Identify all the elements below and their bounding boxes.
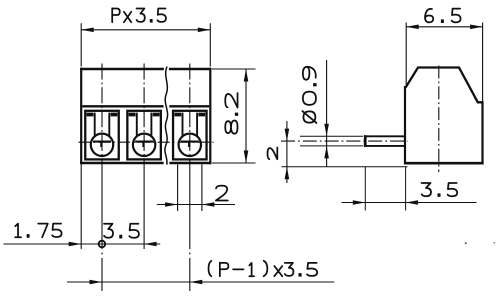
cell 3 screw slot [181,142,199,147]
pin top edge [364,135,406,137]
break squiggle [165,67,168,165]
horizontal row centerline [79,141,214,143]
cell 3 screw circle [179,134,201,156]
dimension 2 (front) line [157,204,235,206]
centerline pole 3 (in block) [189,64,191,165]
dimension 2 (side) line [286,121,288,183]
cell 1 clamp walls [95,113,110,137]
arrow dia0.9 top [324,124,329,137]
pin centerline [281,140,408,142]
front view: block top edge [80,68,211,70]
arrow Px3.5 right [198,28,211,33]
cell 1 square [85,111,119,160]
dimension 3.5 (side) extension lines [365,167,405,211]
dimension (P-1)x3.5 line [67,281,334,283]
dimension dia 0.9 line [326,60,328,167]
cell 1 top bars [87,113,118,117]
arrow 2 front right [202,202,215,207]
cell 2 screw circle [133,134,155,156]
cell 2 clamp walls [137,113,152,137]
side view: bottom edge [404,162,484,165]
pin bottom edge [364,145,406,147]
centerline pole 3 (below block) [189,164,191,291]
front view: block bottom edge [80,162,211,165]
scan speck 2 [493,242,495,244]
side view: left edge [404,86,406,164]
cell 2 screw slot [135,142,153,147]
side view vertical centerline [438,66,440,173]
dimension 2 (front) extension lines [178,164,202,211]
dimension Px3.5 line [81,29,210,31]
front view: block right edge [209,68,211,165]
label 8.2 [225,93,238,134]
left edge extension down [80,164,82,249]
dimension 6.5 line [406,26,482,28]
label dia 0.9 [302,67,316,123]
cell 2 square [127,111,161,160]
label 3.5 side [422,183,458,197]
label Px3.5 [112,8,166,22]
dimension 1.75 / 3.5 line [4,243,161,245]
front view: divider line [82,105,209,107]
arrow 2 front left [165,202,178,207]
label 6.5 [425,9,461,23]
scan speck 1 [465,242,467,244]
cell 3 square [173,111,207,160]
dimension 8.2 extension lines [212,69,256,163]
dimension 8.2 line [245,69,247,163]
dimension 3.5 (side) line [342,202,477,204]
cell 2 top bars [129,113,160,117]
label 2 front [216,186,228,201]
centerline pole 1 (below block) [101,164,103,291]
arrow 8.2 bottom [244,151,249,164]
dimension 6.5 extension lines [406,23,482,102]
front view: block left edge [80,68,82,165]
cell 1 screw circle [91,134,113,156]
arrow 3.5 front right [144,242,157,247]
arrow Px3.5 left [81,28,94,33]
arrow 2 side bottom [285,167,290,180]
label 3.5 front [104,224,139,238]
arrow 6.5 right [470,25,483,30]
label 1.75 [15,224,61,238]
dimension Px3.5 extension lines [81,23,210,66]
arrow 1.75 [69,242,82,247]
bottom extension line (side) [282,166,408,168]
centerline pole 2 (in block) [143,64,145,165]
arrow 3.5 side right [406,200,419,205]
centerline pole 2 (below block) [143,164,145,253]
label (P-1)x3.5 [209,261,318,276]
arrow P-1 left [90,280,103,285]
pin end cap [364,135,367,147]
origin circle mark [99,241,106,248]
arrow dia0.9 bottom [324,146,329,159]
cell 3 clamp walls [183,113,198,137]
dimension dia 0.9 extension lines [300,136,363,146]
centerline pole 1 (in block) [101,64,103,165]
side view: top chamfered outline [406,68,483,103]
side view: right edge [481,101,483,164]
arrow 2 side top [285,129,290,142]
cell 1 screw slot [93,142,111,147]
arrow 3.5 side left [353,200,366,205]
label 2 side [268,148,278,160]
arrow P-1 right [190,280,203,285]
arrow 8.2 top [244,69,249,82]
break squiggle halo [165,67,168,165]
arrow 6.5 left [406,25,419,30]
cell 3 top bars [174,113,205,117]
